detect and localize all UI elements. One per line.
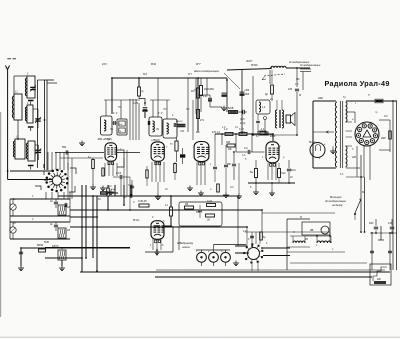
svg-text:1М: 1М	[108, 185, 111, 188]
svg-text:5МВ: 5МВ	[44, 241, 49, 244]
svg-text:8м: 8м	[250, 171, 253, 174]
svg-text:АЧОТ: АЧОТ	[245, 60, 253, 63]
svg-text:ПЧ: ПЧ	[163, 108, 167, 111]
svg-text:-ЧБЛ: -ЧБЛ	[244, 94, 250, 96]
svg-text:344i: 344i	[318, 96, 323, 100]
svg-text:2М7: 2М7	[240, 131, 245, 134]
svg-text:до модернизации: до модернизации	[300, 64, 321, 67]
svg-text:СЧ0,25: СЧ0,25	[138, 199, 147, 203]
svg-text:П: П	[368, 94, 370, 97]
svg-text:ВЧ2: ВЧ2	[151, 62, 157, 66]
svg-text:560: 560	[62, 146, 67, 149]
svg-text:5Ц4С: 5Ц4С	[309, 140, 316, 144]
svg-text:С: С	[133, 201, 135, 204]
svg-text:ПЧ: ПЧ	[186, 108, 190, 111]
svg-text:20,0х450: 20,0х450	[204, 88, 215, 91]
svg-text:6П3С: 6П3С	[251, 63, 258, 67]
svg-text:Радиола Урал-49: Радиола Урал-49	[325, 79, 390, 88]
svg-text:на была): на была)	[332, 204, 343, 207]
svg-text:А/В: А/В	[352, 156, 356, 159]
svg-text:3,0: 3,0	[244, 147, 248, 150]
svg-text:0,И: 0,И	[388, 222, 392, 225]
svg-text:1' 1': 1' 1'	[158, 111, 163, 115]
svg-text:шасси: шасси	[182, 245, 191, 249]
svg-text:(до модернизации: (до модернизации	[325, 200, 347, 203]
svg-text:0,15: 0,15	[116, 171, 122, 175]
svg-text:ВМ-13: ВМ-13	[176, 121, 183, 123]
svg-text:20,0: 20,0	[291, 169, 296, 172]
svg-text:1М: 1М	[384, 115, 387, 118]
svg-text:6Г7: 6Г7	[196, 62, 201, 66]
svg-text:МБ: МБ	[228, 148, 232, 151]
svg-text:520Б: 520Б	[228, 108, 234, 110]
svg-text:(ЖЛ: (ЖЛ	[240, 119, 245, 121]
svg-text:271: 271	[200, 119, 205, 122]
svg-text:-25В: -25В	[97, 139, 102, 141]
svg-text:77-: 77-	[170, 144, 174, 146]
svg-text:Включура: Включура	[330, 196, 342, 199]
svg-text:2В: 2В	[310, 228, 314, 232]
svg-text:+450: +450	[244, 90, 250, 92]
svg-text:6Г4С: 6Г4С	[133, 218, 139, 222]
svg-text:0,25: 0,25	[128, 184, 133, 187]
svg-text:0,47: 0,47	[207, 200, 212, 203]
svg-text:6Г7: 6Г7	[188, 73, 193, 76]
svg-text:М: М	[300, 216, 302, 219]
svg-text:Юм: Юм	[111, 189, 115, 191]
svg-text:7м0: 7м0	[281, 172, 286, 175]
svg-text:1М: 1М	[296, 78, 299, 81]
svg-text:5000: 5000	[37, 243, 44, 247]
svg-text:+: +	[324, 142, 326, 146]
svg-text:ПЧ: ПЧ	[118, 106, 122, 109]
svg-text:1' 1': 1' 1'	[113, 111, 118, 115]
svg-text:875: 875	[196, 211, 201, 214]
svg-text:6К3: 6К3	[143, 73, 148, 76]
svg-text:2В: 2В	[305, 238, 308, 241]
svg-text:Шасси модернизации: Шасси модернизации	[194, 70, 220, 73]
svg-text:470 1,0: 470 1,0	[212, 131, 221, 134]
svg-text:218: 218	[288, 88, 293, 91]
svg-text:КУ1: КУ1	[102, 62, 107, 66]
svg-text:10,0): 10,0)	[240, 123, 245, 125]
svg-text:Л10: Л10	[180, 130, 185, 133]
svg-text:40И: 40И	[369, 222, 374, 225]
svg-text:М: М	[299, 94, 301, 97]
svg-text:20М: 20М	[381, 137, 386, 140]
svg-text:МБ: МБ	[196, 131, 200, 134]
svg-text:1В: 1В	[185, 203, 188, 206]
svg-text:2А: 2А	[270, 98, 273, 101]
svg-text:-1,1: -1,1	[260, 128, 265, 131]
svg-text:330: 330	[226, 141, 231, 144]
svg-text:1М: 1М	[191, 90, 194, 93]
